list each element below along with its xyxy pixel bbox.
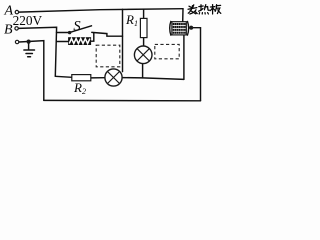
svg-text:220V: 220V xyxy=(13,13,43,28)
svg-text:R2: R2 xyxy=(73,80,86,96)
svg-text:S: S xyxy=(73,18,81,34)
svg-text:R1: R1 xyxy=(125,12,138,28)
